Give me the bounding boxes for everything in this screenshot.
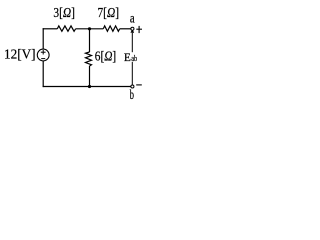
resistor R2 7ohm zigzag xyxy=(103,26,119,31)
wire middle branch lower xyxy=(89,66,91,87)
wire middle branch upper xyxy=(89,29,91,52)
terminal a circle xyxy=(131,27,134,30)
wire bottom xyxy=(43,86,131,88)
plus sign at terminal a xyxy=(136,28,142,30)
svg-text:ab: ab xyxy=(131,53,137,63)
arrow Eab head xyxy=(131,30,134,32)
junction node top xyxy=(88,27,91,30)
terminal b circle xyxy=(131,85,134,88)
svg-text:12[V]: 12[V] xyxy=(4,47,36,62)
wire top-middle segment xyxy=(76,28,104,30)
minus sign at terminal b xyxy=(136,84,142,86)
voltage source plus sign xyxy=(41,51,46,53)
junction node bottom xyxy=(88,85,91,88)
arrow Eab line xyxy=(131,31,133,85)
svg-text:7[Ω]: 7[Ω] xyxy=(98,6,120,21)
svg-text:a: a xyxy=(130,11,135,26)
wire left upper (top wire to source) xyxy=(42,28,44,49)
wire top-right segment xyxy=(120,28,131,30)
wire left lower (source to bottom wire) xyxy=(42,61,44,87)
svg-text:E: E xyxy=(124,52,131,64)
resistor R1 3ohm zigzag xyxy=(57,26,75,31)
svg-text:6[Ω]: 6[Ω] xyxy=(95,49,116,64)
label Eab background xyxy=(124,52,137,62)
svg-text:3[Ω]: 3[Ω] xyxy=(53,6,74,21)
svg-text:b: b xyxy=(130,87,134,102)
voltage source V1 circle xyxy=(37,49,49,61)
voltage source minus sign xyxy=(41,58,45,60)
resistor R3 6ohm zigzag xyxy=(86,52,92,66)
wire top-left segment xyxy=(43,28,58,30)
